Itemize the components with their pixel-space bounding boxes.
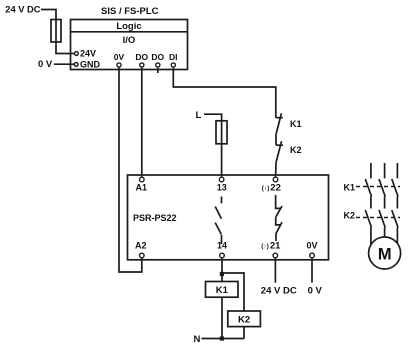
svg-text:22: 22 bbox=[270, 183, 281, 194]
wire fuse to 24V terminal bbox=[56, 42, 74, 54]
svg-text:K2: K2 bbox=[238, 314, 250, 325]
wire junction to K2 coil bbox=[222, 273, 244, 311]
svg-text:A1: A1 bbox=[136, 183, 148, 193]
svg-text:DO: DO bbox=[151, 52, 164, 62]
wire K2 to N bbox=[243, 327, 245, 339]
wire K1 to N bbox=[221, 297, 223, 338]
svg-text:K1: K1 bbox=[216, 285, 229, 296]
PLC logic divider bbox=[71, 31, 188, 33]
terminal DI bbox=[169, 52, 178, 67]
contact K2 aux NC bbox=[276, 141, 302, 162]
junction node N bbox=[220, 336, 224, 340]
wire 14 to junction bbox=[221, 258, 223, 273]
svg-text:24 V DC: 24 V DC bbox=[261, 286, 297, 297]
wire phase L3 bbox=[396, 163, 398, 178]
linkage dashes K2 bbox=[356, 217, 400, 219]
wire aux to terminal 22 bbox=[275, 163, 277, 177]
wire N line bbox=[202, 338, 245, 340]
svg-text:K2: K2 bbox=[290, 145, 302, 155]
svg-text:0V: 0V bbox=[114, 52, 125, 62]
terminal 0V relay bbox=[307, 241, 318, 258]
svg-text:M: M bbox=[378, 245, 392, 263]
terminal A1 bbox=[136, 177, 148, 192]
svg-text:24 V DC: 24 V DC bbox=[5, 5, 40, 15]
terminal DO1 bbox=[135, 52, 148, 67]
wire phase2 to motor bbox=[384, 228, 386, 238]
terminal 0V PLC bbox=[114, 52, 125, 67]
terminal 22 bbox=[262, 177, 281, 193]
wire phase3 to motor bbox=[396, 228, 398, 244]
svg-text:A2: A2 bbox=[135, 241, 147, 251]
svg-text:(↑): (↑) bbox=[261, 243, 269, 250]
terminal A2 bbox=[135, 241, 147, 258]
svg-text:24V: 24V bbox=[80, 49, 96, 59]
PLC box U1 bbox=[71, 20, 188, 70]
junction node 14 branch bbox=[220, 272, 224, 276]
wire phase1 to motor bbox=[370, 228, 372, 246]
contact 22-21 NC pair bbox=[276, 195, 282, 241]
linkage dashes K1 bbox=[356, 186, 400, 188]
terminal 13 bbox=[217, 177, 227, 192]
wire mid phase2 bbox=[384, 197, 386, 209]
wire 24VDC to fuse bbox=[41, 10, 56, 20]
svg-text:13: 13 bbox=[217, 183, 227, 193]
wire phase L2 bbox=[384, 163, 386, 178]
wire DI to aux contacts bbox=[173, 68, 275, 118]
motor M bbox=[369, 237, 401, 269]
fuse F2 bbox=[216, 121, 227, 144]
svg-text:0 V: 0 V bbox=[38, 59, 53, 70]
svg-text:PSR-PS22: PSR-PS22 bbox=[133, 213, 177, 223]
svg-text:0V: 0V bbox=[307, 241, 318, 251]
contact K2 phase2 bbox=[379, 210, 385, 228]
svg-text:DO: DO bbox=[135, 52, 148, 62]
terminal DO2 bbox=[151, 52, 164, 67]
stub wire DO2 bbox=[157, 68, 159, 73]
svg-text:0 V: 0 V bbox=[308, 286, 323, 297]
wire mid phase3 bbox=[396, 197, 398, 209]
terminal 14 bbox=[217, 241, 227, 258]
svg-text:N: N bbox=[194, 334, 201, 345]
wire mid phase1 bbox=[370, 197, 372, 209]
wire L to fuse bbox=[204, 114, 222, 121]
contact K1 phase2 bbox=[379, 179, 385, 197]
contact K1 phase3 bbox=[392, 179, 398, 197]
svg-text:SIS / FS-PLC: SIS / FS-PLC bbox=[101, 6, 159, 17]
relay box PSR-PS22 bbox=[128, 175, 329, 260]
svg-text:K1: K1 bbox=[290, 119, 302, 129]
coil K1 bbox=[206, 282, 239, 298]
wire 0V to GND terminal bbox=[54, 63, 74, 65]
terminal 21 bbox=[261, 241, 281, 258]
contact K2 phase1 bbox=[365, 210, 371, 228]
contact K2 phase3 bbox=[392, 210, 398, 228]
terminal 24V bbox=[75, 49, 97, 59]
terminal GND bbox=[74, 60, 100, 70]
svg-text:14: 14 bbox=[217, 241, 227, 251]
wire between aux contacts bbox=[275, 134, 277, 145]
svg-text:21: 21 bbox=[270, 241, 281, 252]
svg-text:(↑): (↑) bbox=[262, 185, 270, 192]
contact 13-14 NO pair bbox=[215, 197, 221, 245]
wire PLC 0V to A2 bbox=[119, 68, 142, 272]
fuse F1 bbox=[51, 20, 61, 43]
svg-text:L: L bbox=[196, 110, 202, 121]
contact K1 phase1 bbox=[365, 179, 371, 197]
svg-text:K1: K1 bbox=[344, 183, 356, 193]
wire phase L1 bbox=[370, 163, 372, 178]
svg-text:Logic: Logic bbox=[116, 21, 141, 32]
svg-text:K2: K2 bbox=[344, 211, 356, 221]
wire relay 0V down bbox=[311, 258, 313, 282]
wire 21 down bbox=[274, 258, 276, 282]
wire junction to K1 coil bbox=[221, 273, 223, 282]
svg-text:GND: GND bbox=[80, 60, 101, 70]
svg-text:DI: DI bbox=[169, 52, 178, 62]
contact K1 aux NC bbox=[276, 113, 302, 134]
coil K2 bbox=[228, 311, 261, 327]
wire DO1 to A1 bbox=[141, 68, 143, 177]
svg-text:I/O: I/O bbox=[123, 35, 136, 46]
wire fuse to terminal 13 bbox=[221, 144, 223, 177]
